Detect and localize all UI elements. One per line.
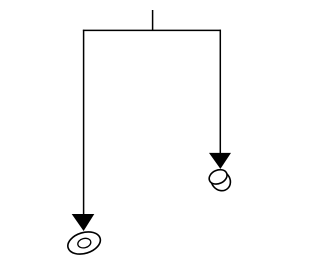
node right ball lower ellipse [207,167,234,195]
node left torus inner ellipse [77,237,92,249]
node right ball upper ellipse [207,167,229,187]
wire right vertical [219,30,221,154]
node left torus outer ellipse [65,228,103,258]
wire top stub [152,10,154,31]
wire left vertical [83,30,85,215]
arrowhead right [209,153,231,169]
arrowhead left [72,214,95,231]
wire horizontal bar [83,29,221,31]
